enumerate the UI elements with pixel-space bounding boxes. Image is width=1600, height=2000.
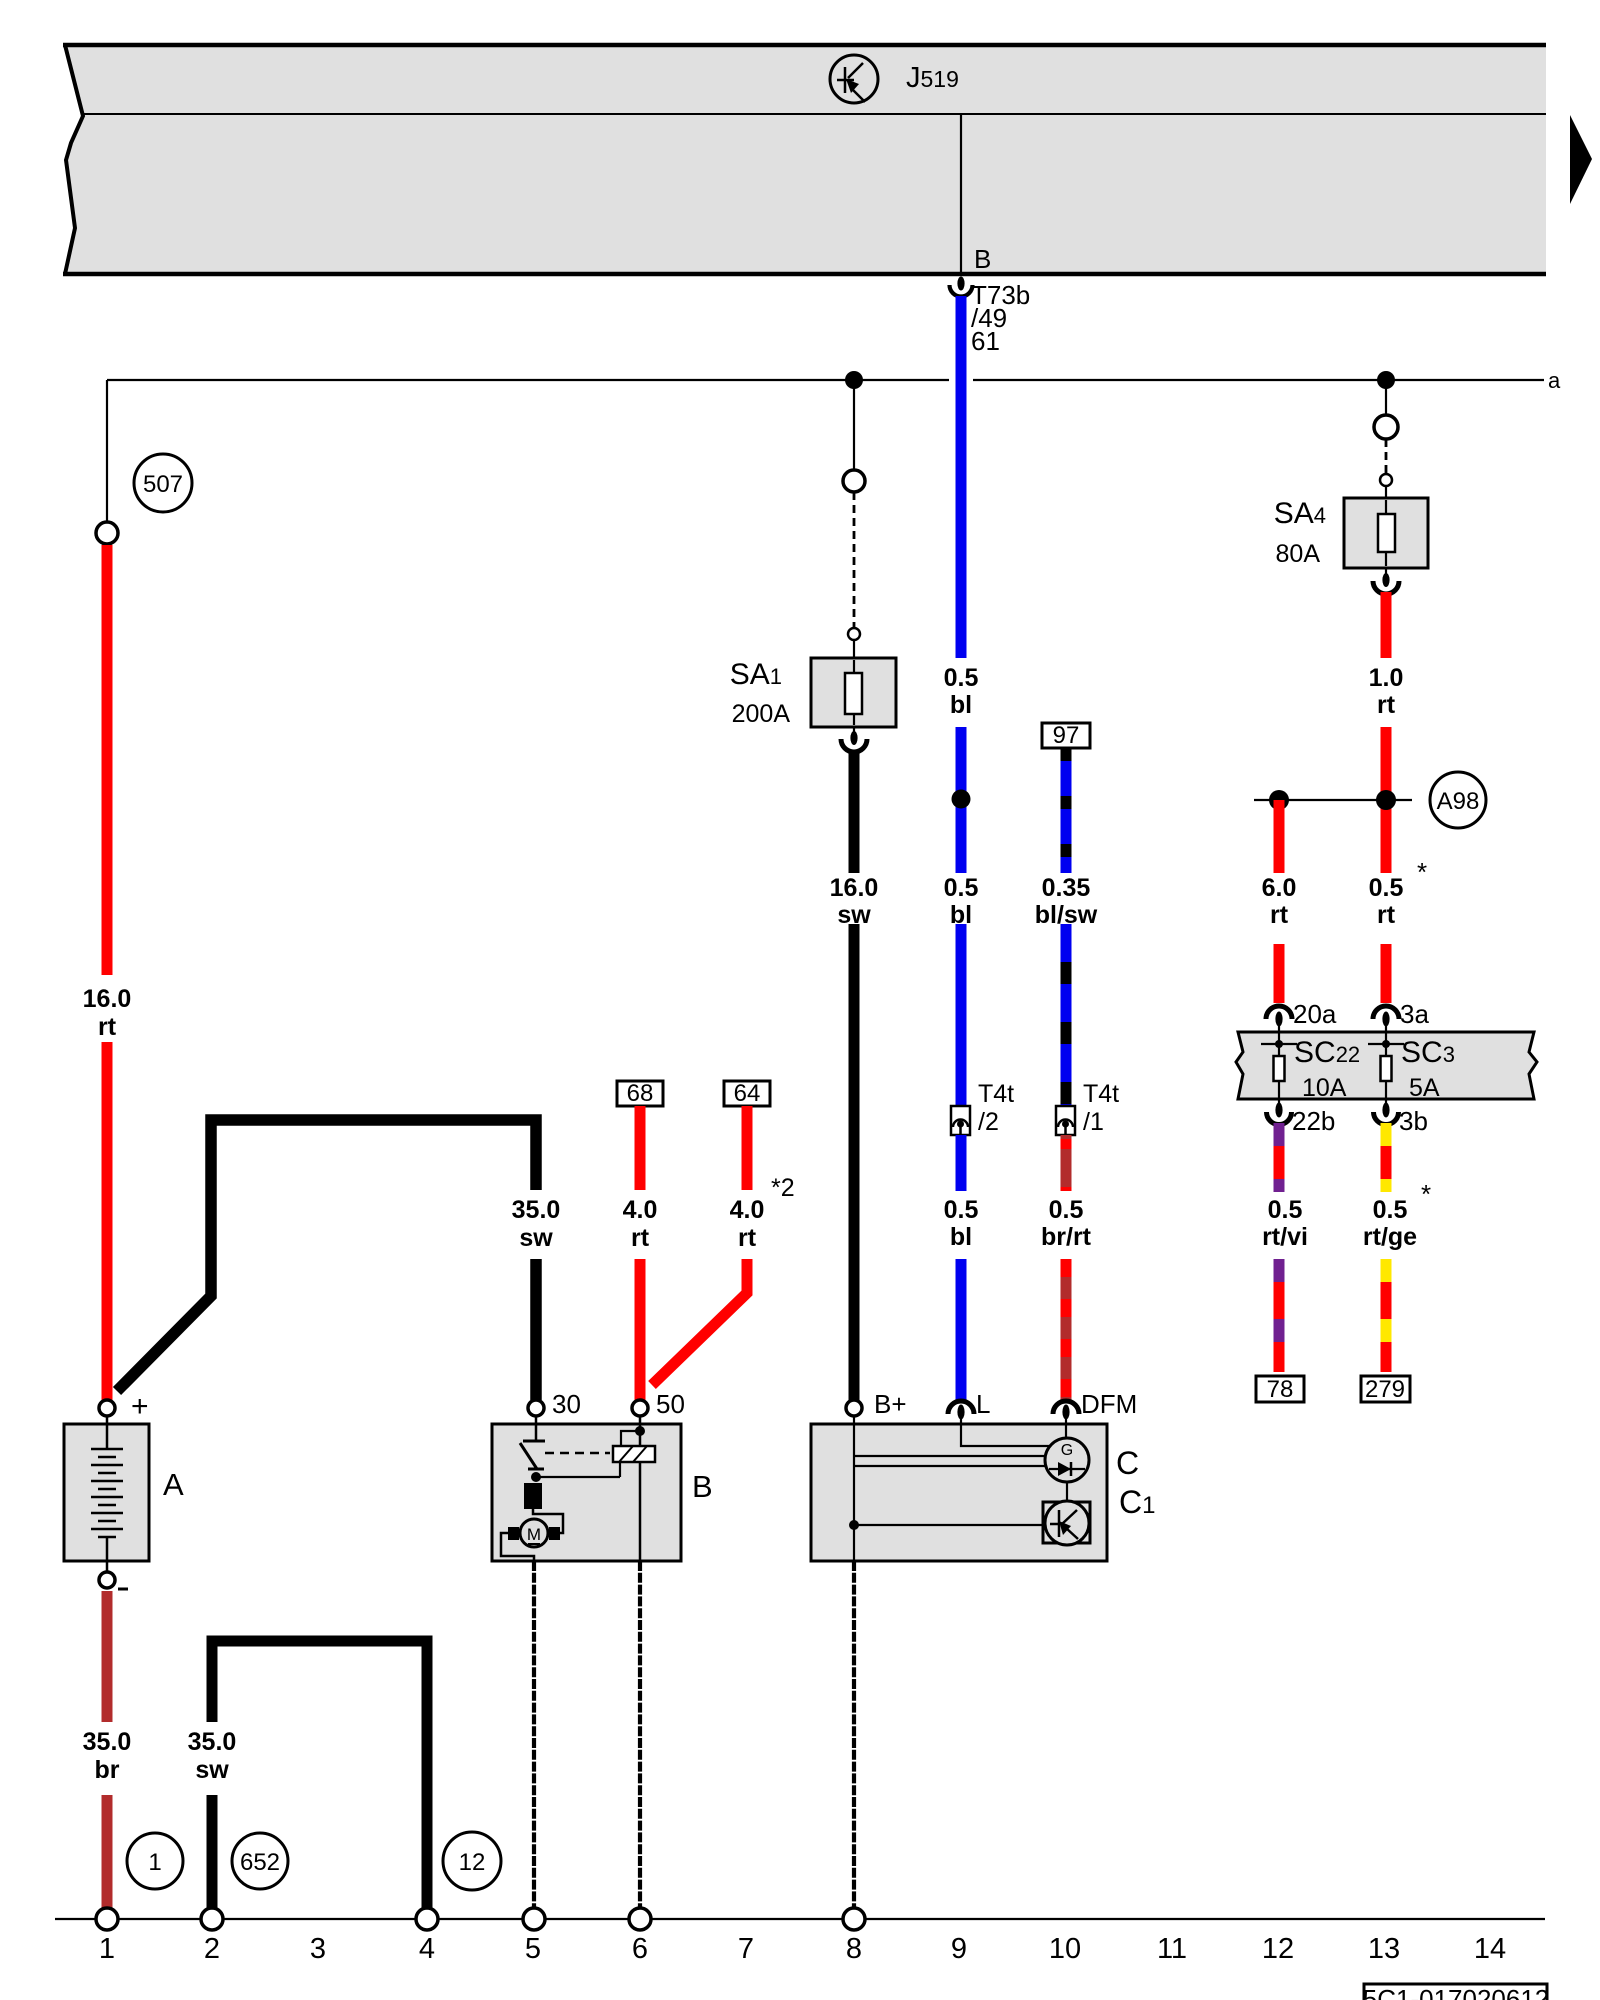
wire 16.0 sw lower	[849, 924, 860, 1400]
wire 4.0 rt upper (64)	[742, 1106, 753, 1190]
svg-text:rt: rt	[631, 1224, 650, 1252]
terminal 30 circle	[528, 1400, 544, 1416]
svg-text:a: a	[1548, 368, 1561, 393]
svg-text:3a: 3a	[1400, 999, 1429, 1029]
node A98	[1254, 772, 1486, 828]
wire 16.0 rt lower	[102, 1042, 113, 1400]
wire 0.5 bl to connector T4t/2	[956, 924, 967, 1106]
svg-text:35.0: 35.0	[512, 1196, 561, 1224]
wire 0.35 bl/sw lower	[1061, 924, 1072, 1106]
wire coil to terminal 6	[638, 1561, 642, 1908]
relay actuation dashed link	[545, 1452, 610, 1455]
svg-text:507: 507	[143, 471, 183, 498]
wire 16.0 rt upper	[102, 545, 113, 975]
wire 16.0 sw upper	[849, 750, 860, 873]
connector 22b	[1267, 1099, 1336, 1136]
wire 0.35 bl/sw upper	[1061, 748, 1072, 873]
svg-text:bl: bl	[950, 691, 972, 719]
wire 0.5 rt/vi upper	[1274, 1123, 1285, 1192]
svg-text:0.5: 0.5	[1049, 1196, 1084, 1224]
ground designation circle 12	[443, 1832, 501, 1890]
svg-text:50: 50	[656, 1389, 685, 1419]
svg-text:M: M	[527, 1525, 541, 1544]
svg-text:1.0: 1.0	[1369, 664, 1404, 692]
connector below SA4	[1373, 573, 1399, 594]
terminal circle 8	[843, 1908, 865, 1930]
wire 4.0 rt upper (68)	[635, 1106, 646, 1190]
svg-text:3b: 3b	[1399, 1106, 1428, 1136]
svg-text:J519: J519	[906, 62, 959, 94]
ground designation circle 652	[232, 1833, 288, 1889]
terminal circle above SA4	[1374, 415, 1398, 439]
drawing number box	[1363, 1984, 1550, 2000]
ground strap wire 35.0 sw lower	[207, 1795, 218, 1908]
battery positive cable 35.0 sw to starter	[117, 1120, 536, 1391]
svg-text:0.5: 0.5	[944, 1196, 979, 1224]
DFM internal wiring	[1065, 1424, 1067, 1440]
terminal 50 circle	[632, 1400, 648, 1416]
svg-text:64: 64	[734, 1080, 761, 1107]
terminal 50 feed into coil	[621, 1416, 645, 1561]
svg-text:1: 1	[99, 1933, 115, 1965]
link G to regulator	[1066, 1482, 1068, 1503]
svg-text:/2: /2	[978, 1108, 999, 1136]
svg-text:7: 7	[738, 1933, 754, 1965]
fuse SC22	[1261, 1032, 1360, 1102]
svg-text:rt: rt	[1377, 901, 1396, 929]
svg-text:0.5: 0.5	[1369, 874, 1404, 902]
connection box 78	[1256, 1376, 1304, 1403]
terminal B+ circle	[846, 1400, 862, 1416]
svg-text:13: 13	[1368, 1933, 1400, 1965]
regulator feed junction	[849, 1520, 1043, 1530]
svg-text:6: 6	[632, 1933, 648, 1965]
wire drop to fuse SA4	[1385, 380, 1387, 416]
svg-text:rt/vi: rt/vi	[1262, 1223, 1308, 1251]
svg-text:B: B	[974, 244, 991, 274]
J519 control-unit symbol (circle with arrow icon)	[830, 55, 878, 103]
svg-text:14: 14	[1474, 1933, 1506, 1965]
voltage regulator C1 symbol	[1043, 1501, 1090, 1545]
fuse SC3	[1368, 1032, 1455, 1102]
svg-text:2: 2	[204, 1933, 220, 1965]
svg-text:sw: sw	[519, 1224, 553, 1252]
fuse strip SC	[1236, 1032, 1537, 1099]
wire 0.5 rt/ge lower	[1381, 1259, 1392, 1372]
terminal circle battery feed	[96, 522, 118, 544]
wire 1.0 rt lower	[1381, 727, 1392, 873]
svg-text:652: 652	[240, 1849, 280, 1876]
svg-text:A: A	[163, 1467, 184, 1502]
junction dot at column 13	[1377, 371, 1395, 389]
svg-text:5C1-017020612: 5C1-017020612	[1363, 1984, 1550, 2000]
connector T4t/2	[951, 1080, 1014, 1136]
terminal circle 6	[629, 1908, 651, 1930]
wire 0.5 bl to terminal L	[956, 1259, 967, 1401]
svg-text:16.0: 16.0	[830, 874, 879, 902]
svg-text:0.5: 0.5	[944, 664, 979, 692]
svg-text:+: +	[131, 1390, 149, 1423]
terminal circle above SA1	[843, 470, 865, 492]
L internal wiring	[961, 1424, 1051, 1446]
wire 6.0 rt lower	[1274, 944, 1285, 1003]
continuation arrow	[1570, 115, 1592, 204]
dashed wire to SA4	[1385, 439, 1388, 474]
wire drop to fuse SA1	[853, 380, 855, 470]
svg-text:B: B	[692, 1469, 713, 1504]
svg-text:279: 279	[1365, 1376, 1405, 1403]
svg-text:8: 8	[846, 1933, 862, 1965]
svg-text:rt/ge: rt/ge	[1363, 1223, 1417, 1251]
svg-text:200A: 200A	[732, 700, 791, 728]
wire alternator to terminal 8	[852, 1561, 856, 1908]
wire 0.5 bl with junction	[956, 727, 967, 873]
svg-text:10A: 10A	[1302, 1074, 1347, 1102]
svg-text:T4t: T4t	[978, 1080, 1014, 1108]
wire 0.5 bl from T73b	[956, 296, 967, 658]
battery A	[64, 1390, 184, 1589]
svg-text:12: 12	[459, 1849, 486, 1876]
B+ internal wiring	[854, 1416, 1046, 1561]
svg-text:bl: bl	[950, 1223, 972, 1251]
terminal circle 5	[523, 1908, 545, 1930]
svg-text:/1: /1	[1083, 1108, 1104, 1136]
connection box 64	[724, 1080, 770, 1107]
svg-text:L: L	[976, 1389, 990, 1419]
connection box 97	[1042, 722, 1090, 749]
svg-text:0.5: 0.5	[944, 874, 979, 902]
svg-text:5: 5	[525, 1933, 541, 1965]
svg-text:9: 9	[951, 1933, 967, 1965]
svg-text:12: 12	[1262, 1933, 1294, 1965]
alternator C box	[811, 1424, 1155, 1561]
svg-text:6.0: 6.0	[1262, 874, 1297, 902]
starter solenoid contact block	[524, 1483, 542, 1509]
svg-text:*2: *2	[771, 1174, 795, 1202]
junction dot at column 8	[845, 371, 863, 389]
connector 3b	[1374, 1099, 1428, 1136]
svg-text:10: 10	[1049, 1933, 1081, 1965]
svg-text:A98: A98	[1437, 788, 1480, 815]
svg-text:35.0: 35.0	[188, 1728, 237, 1756]
svg-text:1: 1	[148, 1849, 161, 1876]
wire 4.0 rt lower diagonal (64)	[652, 1259, 747, 1385]
connector 3a	[1373, 999, 1429, 1032]
svg-text:22b: 22b	[1292, 1106, 1335, 1136]
connector below SA1	[841, 731, 867, 752]
fuse SA1 box	[811, 640, 896, 734]
terminal circle 1	[96, 1908, 118, 1930]
junction dot on bl wire	[952, 790, 971, 809]
cable to terminal 30	[530, 1259, 542, 1400]
svg-text:*: *	[1421, 1179, 1431, 1209]
svg-text:20a: 20a	[1293, 999, 1337, 1029]
svg-text:35.0: 35.0	[83, 1728, 132, 1756]
fuse SA4 box	[1344, 486, 1428, 575]
svg-text:rt: rt	[98, 1013, 117, 1041]
svg-text:97: 97	[1053, 722, 1080, 749]
connection box 68	[617, 1080, 663, 1107]
wire 0.5 rt/vi lower	[1274, 1259, 1285, 1372]
svg-text:80A: 80A	[1276, 540, 1321, 568]
svg-text:T4t: T4t	[1083, 1080, 1119, 1108]
connector 20a	[1266, 999, 1337, 1032]
svg-text:0.5: 0.5	[1373, 1196, 1408, 1224]
starter switch contact	[520, 1416, 545, 1482]
connector T4t/1	[1056, 1080, 1119, 1136]
svg-text:4.0: 4.0	[623, 1196, 658, 1224]
svg-text:0.35: 0.35	[1042, 874, 1091, 902]
control unit J519 band	[63, 45, 1546, 274]
solenoid coil (hatched)	[536, 1446, 655, 1477]
dashed wire to SA1	[853, 492, 856, 628]
wire 6.0 rt upper	[1274, 800, 1285, 873]
svg-text:5A: 5A	[1409, 1074, 1440, 1102]
svg-text:4.0: 4.0	[730, 1196, 765, 1224]
svg-text:78: 78	[1267, 1376, 1294, 1403]
svg-text:4: 4	[419, 1933, 435, 1965]
ground designation circle 1	[127, 1833, 183, 1889]
svg-text:br/rt: br/rt	[1041, 1223, 1092, 1251]
svg-text:sw: sw	[195, 1756, 229, 1784]
svg-text:rt: rt	[1377, 691, 1396, 719]
grid numbers 1-14	[99, 1933, 1506, 1965]
svg-text:C: C	[1116, 1445, 1139, 1481]
wire 0.5 rt lower	[1381, 944, 1392, 1003]
svg-text:rt: rt	[1270, 901, 1289, 929]
wire starter motor to terminal 5	[532, 1561, 536, 1908]
svg-text:rt: rt	[738, 1224, 757, 1252]
terminal circle 2	[201, 1908, 223, 1930]
wire 0.5 br/rt to terminal DFM	[1061, 1259, 1072, 1401]
svg-text:DFM: DFM	[1081, 1389, 1137, 1419]
ground strap wire 35.0 sw upper	[212, 1641, 427, 1908]
svg-text:B+: B+	[874, 1389, 907, 1419]
wire 1.0 rt	[1381, 592, 1392, 658]
bottom terminal rail	[55, 1918, 1545, 1920]
wire drop to battery positive branch	[106, 380, 108, 522]
node a horizontal wire	[107, 379, 949, 381]
starter motor M	[508, 1519, 560, 1547]
small terminal circle SA4	[1380, 474, 1392, 486]
svg-text:68: 68	[627, 1080, 654, 1107]
wire solenoid to motor	[533, 1509, 563, 1533]
wire 0.5 br/rt upper	[1061, 1135, 1072, 1191]
svg-text:br: br	[95, 1756, 120, 1784]
wire 35.0 br lower	[102, 1795, 113, 1908]
pin B wire inside band	[960, 114, 962, 274]
svg-text:61: 61	[971, 326, 1000, 356]
svg-text:11: 11	[1157, 1933, 1187, 1965]
connector T73b/49 pin 61	[950, 277, 1031, 357]
motor ground return wire	[501, 1533, 534, 1561]
svg-text:G: G	[1061, 1442, 1073, 1459]
svg-text:0.5: 0.5	[1268, 1196, 1303, 1224]
svg-text:3: 3	[310, 1933, 326, 1965]
wire 0.5 bl below T4t	[956, 1135, 967, 1191]
small terminal circle SA1	[848, 628, 860, 640]
wire 35.0 br upper	[102, 1591, 113, 1722]
ground point 507 circle	[134, 454, 192, 512]
wire 0.5 rt/ge upper	[1381, 1123, 1392, 1192]
wire 4.0 rt lower (68)	[635, 1259, 646, 1400]
generator G symbol	[1045, 1438, 1089, 1482]
terminal L connector	[948, 1389, 990, 1424]
starter B box	[492, 1424, 713, 1561]
terminal DFM connector	[1053, 1389, 1137, 1424]
svg-text:16.0: 16.0	[83, 985, 132, 1013]
svg-text:30: 30	[552, 1389, 581, 1419]
svg-text:*: *	[1417, 857, 1427, 887]
connection box 279	[1361, 1376, 1410, 1403]
terminal circle 4	[416, 1908, 438, 1930]
